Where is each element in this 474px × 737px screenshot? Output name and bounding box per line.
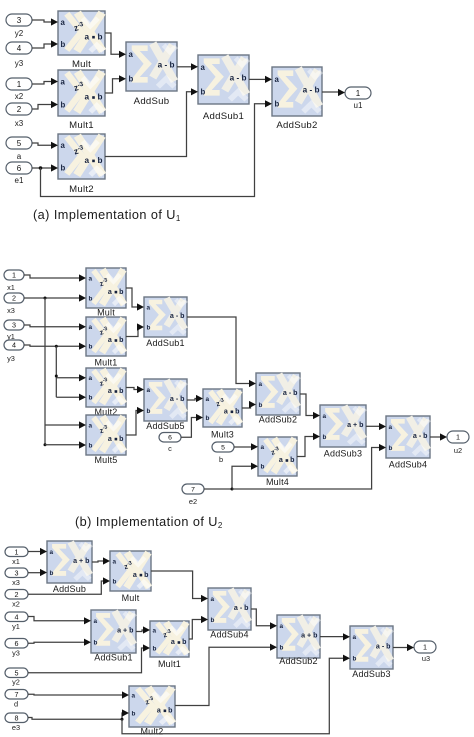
svg-text:a: a xyxy=(61,141,66,150)
wire Mult4 to AddSub3 b b xyxy=(297,437,313,457)
svg-text:a: a xyxy=(275,75,280,84)
adder AddSub4 c xyxy=(208,588,251,630)
svg-text:b: b xyxy=(119,336,124,344)
svg-text:AddSub5: AddSub5 xyxy=(146,421,184,431)
svg-text:a: a xyxy=(279,456,283,464)
input port 2 (x2) c xyxy=(5,590,28,600)
adder AddSub3 c xyxy=(350,626,393,669)
svg-text:b: b xyxy=(219,455,223,464)
wire AddSub3 to u3 xyxy=(393,647,407,649)
svg-text:a - b: a - b xyxy=(230,74,247,83)
svg-text:AddSub2: AddSub2 xyxy=(279,656,317,666)
svg-text:x1: x1 xyxy=(7,283,15,292)
wire x1 to AddSub a c xyxy=(28,551,40,553)
svg-text:a: a xyxy=(129,50,134,59)
svg-text:AddSub1: AddSub1 xyxy=(94,653,132,663)
svg-text:d: d xyxy=(14,700,18,709)
svg-text:1: 1 xyxy=(423,643,427,652)
adder AddSub2 b xyxy=(256,373,300,415)
input port 3 (y2) xyxy=(6,14,32,26)
wire d to Mult2 a xyxy=(28,693,122,696)
wire e1 to AddSub2 b xyxy=(41,104,266,197)
svg-text:4: 4 xyxy=(15,612,19,621)
svg-text:u1: u1 xyxy=(354,101,363,110)
svg-text:e3: e3 xyxy=(12,723,20,732)
adder AddSub1 xyxy=(198,55,249,104)
wire e2 to Mult4 b xyxy=(204,466,251,489)
svg-text:a: a xyxy=(89,375,93,382)
wire AddSub2 to AddSub3 a b xyxy=(300,394,313,416)
input port 7 (e2) xyxy=(182,484,204,494)
svg-text:b: b xyxy=(389,445,393,452)
svg-text:(a) Implementation of U1: (a) Implementation of U1 xyxy=(33,208,181,223)
svg-text:b: b xyxy=(147,324,151,331)
svg-text:a: a xyxy=(261,444,265,451)
svg-text:a - b: a - b xyxy=(234,604,249,612)
input port 1 (x2) xyxy=(6,78,32,90)
multiplier Mult2 b xyxy=(86,368,126,407)
svg-text:b: b xyxy=(94,640,98,647)
svg-text:a: a xyxy=(211,596,215,603)
svg-text:4: 4 xyxy=(17,44,22,53)
svg-text:a: a xyxy=(84,32,89,41)
svg-text:a: a xyxy=(113,558,117,565)
svg-text:a: a xyxy=(171,638,175,646)
svg-text:a: a xyxy=(61,77,66,86)
svg-text:8: 8 xyxy=(15,713,19,722)
wire e3 to AddSub3 b c xyxy=(122,658,343,734)
multiplier Mult b xyxy=(86,268,126,308)
wire e2 to AddSub4 b b xyxy=(232,448,379,490)
svg-text:b: b xyxy=(89,295,93,302)
svg-text:a: a xyxy=(206,396,210,403)
svg-text:y3: y3 xyxy=(15,59,24,68)
adder AddSub c xyxy=(47,541,92,583)
adder AddSub1 b xyxy=(144,297,187,337)
input port 6 (c) xyxy=(159,433,181,443)
svg-text:Mult: Mult xyxy=(97,308,115,318)
output port 1 (u1) xyxy=(345,87,371,99)
svg-text:a: a xyxy=(61,18,66,27)
wire to Mult2 b xyxy=(56,396,79,398)
svg-text:Mult: Mult xyxy=(122,593,140,603)
output port 1 (u2) xyxy=(447,431,469,443)
wire a to Mult2 a xyxy=(32,143,51,145)
svg-text:6: 6 xyxy=(17,164,22,173)
svg-text:a: a xyxy=(89,275,93,282)
svg-text:a - b: a - b xyxy=(158,61,175,70)
adder AddSub5 xyxy=(144,379,187,421)
svg-text:2: 2 xyxy=(17,105,22,114)
input port 5 (a) xyxy=(6,137,32,149)
svg-text:4: 4 xyxy=(12,341,16,350)
wire e1 to Mult2 b xyxy=(32,167,51,169)
multiplier Mult c xyxy=(110,551,151,591)
junction Mult5 b xyxy=(44,443,47,446)
svg-text:Mult1: Mult1 xyxy=(69,120,94,131)
wire c to Mult3 b xyxy=(181,418,196,438)
svg-text:b: b xyxy=(97,156,102,165)
svg-text:a: a xyxy=(147,304,151,311)
svg-text:b: b xyxy=(61,164,66,173)
svg-text:b: b xyxy=(211,617,215,624)
wire y3 to AddSub1 b c xyxy=(28,642,84,643)
svg-text:Mult4: Mult4 xyxy=(266,477,289,487)
multiplier Mult4 xyxy=(258,437,297,476)
wire AddSub4 to AddSub2 a xyxy=(251,609,270,626)
svg-text:7: 7 xyxy=(15,690,19,699)
svg-text:b: b xyxy=(89,442,93,449)
svg-text:b: b xyxy=(290,456,295,464)
svg-text:b: b xyxy=(201,88,206,97)
adder AddSub xyxy=(126,42,177,91)
svg-text:c: c xyxy=(168,444,172,453)
svg-text:y2: y2 xyxy=(12,678,20,687)
svg-text:b: b xyxy=(353,656,357,663)
wire AddSub to AddSub1 a xyxy=(177,66,191,68)
wire Mult3 to AddSub2 b b xyxy=(242,405,251,409)
input port 1 (x1) c xyxy=(5,547,28,557)
svg-text:a: a xyxy=(84,93,89,102)
wire x2 to Mult b c xyxy=(28,581,103,594)
svg-text:Mult1: Mult1 xyxy=(94,358,117,368)
wire AddSub1 to AddSub2 a b xyxy=(187,317,249,384)
wire branch to Mult2 a xyxy=(56,377,79,379)
multiplier Mult1 xyxy=(58,70,105,116)
svg-text:3: 3 xyxy=(15,568,19,577)
svg-text:a: a xyxy=(153,627,157,634)
svg-text:a - b: a - b xyxy=(170,312,185,320)
svg-text:AddSub3: AddSub3 xyxy=(324,449,362,459)
wire y1 to AddSub1 a c xyxy=(28,617,84,621)
svg-text:a: a xyxy=(280,623,284,630)
input port 4 (y1) c xyxy=(5,612,28,622)
input port 7 (d) c xyxy=(5,690,28,700)
svg-text:5: 5 xyxy=(17,139,22,148)
svg-text:b: b xyxy=(144,571,149,579)
input port 5 (b) xyxy=(212,442,234,452)
wire Mult to AddSub4 a xyxy=(151,571,201,599)
svg-text:x2: x2 xyxy=(12,600,20,609)
wire y2 to Mult1 b xyxy=(28,648,143,673)
svg-text:a - b: a - b xyxy=(303,86,320,95)
svg-text:x2: x2 xyxy=(15,92,24,101)
adder AddSub2 c xyxy=(277,615,320,658)
svg-text:a - b: a - b xyxy=(413,432,428,440)
svg-text:Mult3: Mult3 xyxy=(211,430,234,440)
svg-text:7: 7 xyxy=(191,486,195,493)
svg-text:b: b xyxy=(280,645,284,652)
svg-text:1: 1 xyxy=(356,89,361,98)
wire Mult2 to AddSub1 b xyxy=(105,92,191,157)
wire y3 down to Mult2 xyxy=(55,346,57,397)
svg-text:b: b xyxy=(97,32,102,41)
multiplier Mult1 b xyxy=(86,317,126,356)
svg-text:AddSub4: AddSub4 xyxy=(210,630,248,640)
svg-text:e2: e2 xyxy=(189,497,197,506)
wire x2 to Mult1 a xyxy=(32,82,51,85)
svg-text:AddSub1: AddSub1 xyxy=(203,111,244,122)
svg-text:a: a xyxy=(132,692,136,699)
input port 2 (x3) b xyxy=(4,293,24,303)
svg-text:b: b xyxy=(153,645,157,652)
wire AddSub4 to u2 xyxy=(430,436,440,438)
wire y2 to Mult a xyxy=(32,20,51,22)
adder AddSub3 b xyxy=(320,405,366,447)
wire e3 to Mult2 b xyxy=(28,713,123,719)
junction x3 xyxy=(44,297,47,300)
svg-text:b: b xyxy=(89,344,93,351)
svg-text:Mult: Mult xyxy=(72,59,91,70)
multiplier Mult xyxy=(58,11,105,55)
svg-text:2: 2 xyxy=(12,294,16,303)
svg-text:AddSub2: AddSub2 xyxy=(259,415,297,425)
svg-text:AddSub1: AddSub1 xyxy=(146,338,184,348)
input port 5 (y2) c xyxy=(5,668,28,678)
output port 1 (u3) xyxy=(414,641,436,653)
svg-text:b: b xyxy=(168,706,173,714)
svg-text:a: a xyxy=(157,706,161,714)
wire branch to Mult5 a xyxy=(45,424,79,426)
svg-text:a: a xyxy=(389,424,393,431)
svg-text:a: a xyxy=(89,324,93,331)
wire AddSub2 to u1 xyxy=(322,91,338,93)
svg-text:1: 1 xyxy=(12,271,16,280)
wire Mult2 to AddSub5 a xyxy=(126,388,137,390)
svg-text:b: b xyxy=(182,638,187,646)
junction e1 xyxy=(39,166,43,170)
svg-text:b: b xyxy=(61,100,66,109)
input port 1 (x1) b xyxy=(4,270,24,280)
multiplier Mult1 c xyxy=(150,621,189,657)
svg-text:x3: x3 xyxy=(7,306,15,315)
svg-text:y2: y2 xyxy=(15,29,24,38)
svg-text:a: a xyxy=(17,152,22,161)
svg-text:a: a xyxy=(201,63,206,72)
junction e3 xyxy=(121,718,124,721)
multiplier Mult3 xyxy=(203,389,242,427)
wire x3 to Mult b b xyxy=(24,297,79,299)
wire AddSub1 to AddSub2 a xyxy=(249,78,265,80)
adder AddSub4 b xyxy=(386,416,430,458)
svg-text:y3: y3 xyxy=(7,354,15,363)
svg-text:a: a xyxy=(353,634,357,641)
svg-text:AddSub: AddSub xyxy=(134,96,170,107)
wire AddSub to Mult a c xyxy=(92,561,103,562)
svg-text:Mult1: Mult1 xyxy=(158,659,181,669)
section (b): Implementation of U2 xyxy=(4,268,469,530)
adder AddSub2 xyxy=(272,67,322,116)
wire AddSub2 to AddSub3 a xyxy=(320,636,343,638)
wire Mult1 to AddSub b xyxy=(105,79,119,93)
svg-text:a: a xyxy=(224,408,228,416)
wire b to Mult4 a xyxy=(234,446,251,448)
input port 4 (y3) xyxy=(6,42,32,54)
svg-text:a: a xyxy=(108,435,112,443)
svg-text:b: b xyxy=(97,93,102,102)
input port 6 (y3) c xyxy=(5,639,28,649)
svg-text:b: b xyxy=(129,75,134,84)
svg-text:a + b: a + b xyxy=(117,626,134,634)
wire Mult1 to AddSub1 b b xyxy=(126,327,138,337)
wire y3 to Mult1 b b xyxy=(24,345,79,346)
svg-text:Mult2: Mult2 xyxy=(69,184,94,195)
multiplier Mult2 c xyxy=(129,686,175,727)
svg-text:x3: x3 xyxy=(12,578,20,587)
svg-text:5: 5 xyxy=(15,668,19,677)
svg-text:a: a xyxy=(259,381,263,388)
svg-text:a: a xyxy=(89,422,93,429)
svg-text:6: 6 xyxy=(168,435,172,442)
wire Mult1 to AddSub4 b xyxy=(189,620,201,640)
svg-text:x3: x3 xyxy=(15,119,24,128)
svg-text:1: 1 xyxy=(15,547,19,556)
junction Mult2 a xyxy=(55,375,58,378)
section (a): Implementation of U1 xyxy=(6,11,371,223)
svg-text:a + b: a + b xyxy=(301,631,318,639)
svg-text:x1: x1 xyxy=(12,557,20,566)
input port 2 (x3) xyxy=(6,103,32,115)
wire Mult5 to AddSub5 b xyxy=(126,411,137,436)
svg-text:a: a xyxy=(323,413,327,420)
svg-text:b: b xyxy=(119,288,124,296)
svg-text:a: a xyxy=(133,571,137,579)
svg-text:2: 2 xyxy=(15,590,19,599)
multiplier Mult5 xyxy=(86,415,126,455)
svg-text:3: 3 xyxy=(12,321,16,330)
svg-text:AddSub4: AddSub4 xyxy=(389,460,427,470)
svg-text:b: b xyxy=(113,578,117,585)
svg-text:a - b: a - b xyxy=(170,395,185,403)
wire x3 to Mult1 b xyxy=(32,105,51,110)
svg-text:a: a xyxy=(50,549,54,556)
svg-text:b: b xyxy=(147,408,151,415)
svg-text:b: b xyxy=(259,402,263,409)
svg-text:b: b xyxy=(119,435,124,443)
wire x1 to Mult a b xyxy=(24,275,79,278)
wire to Mult5 b xyxy=(45,444,79,446)
wire x3 down to Mult5 xyxy=(44,298,46,445)
svg-text:(b) Implementation of U2: (b) Implementation of U2 xyxy=(75,515,223,530)
input port 3 (x3) c xyxy=(5,568,28,578)
wire Mult to AddSub1 a b xyxy=(126,288,137,307)
wire Mult2 to AddSub2 b xyxy=(175,647,270,705)
wire y1 to Mult1 a b xyxy=(24,325,79,327)
adder AddSub1 c xyxy=(91,610,136,653)
wire x3 to AddSub b c xyxy=(28,572,40,574)
svg-text:AddSub2: AddSub2 xyxy=(276,120,317,131)
svg-text:y1: y1 xyxy=(12,622,20,631)
svg-text:1: 1 xyxy=(456,433,460,442)
input port 8 (e3) c xyxy=(5,713,28,723)
svg-text:a: a xyxy=(108,288,112,296)
svg-text:b: b xyxy=(261,464,265,471)
svg-text:b: b xyxy=(119,387,124,395)
svg-text:b: b xyxy=(275,100,280,109)
wire y3 to Mult b xyxy=(32,44,51,48)
svg-text:u2: u2 xyxy=(454,446,462,455)
svg-text:a - b: a - b xyxy=(283,389,298,397)
multiplier Mult2 xyxy=(58,134,105,179)
input port 6 (e1) xyxy=(6,162,32,174)
svg-text:e1: e1 xyxy=(15,176,24,185)
svg-text:AddSub: AddSub xyxy=(53,584,86,594)
svg-text:a: a xyxy=(108,387,112,395)
svg-text:b: b xyxy=(50,570,54,577)
input port 3 (y1) b xyxy=(4,320,24,330)
svg-text:b: b xyxy=(89,395,93,402)
svg-text:y3: y3 xyxy=(12,649,20,658)
svg-text:5: 5 xyxy=(221,444,225,451)
junction e2 xyxy=(231,488,234,491)
wire Mult to AddSub a xyxy=(105,33,119,54)
svg-text:1: 1 xyxy=(17,80,22,89)
svg-text:a: a xyxy=(147,387,151,394)
svg-text:u3: u3 xyxy=(422,654,430,663)
input port 4 (y3) b xyxy=(4,340,24,350)
svg-text:b: b xyxy=(235,408,240,416)
svg-text:a: a xyxy=(108,336,112,344)
section (c): Implementation of U3 xyxy=(5,541,436,737)
wire AddSub3 to AddSub4 a b xyxy=(366,425,379,427)
svg-text:Mult2: Mult2 xyxy=(140,727,163,737)
svg-text:b: b xyxy=(132,710,136,717)
wire AddSub5 to Mult3 a xyxy=(187,399,196,401)
svg-text:a: a xyxy=(84,156,89,165)
svg-text:b: b xyxy=(206,415,210,422)
svg-text:Mult5: Mult5 xyxy=(94,455,117,465)
svg-text:a - b: a - b xyxy=(376,642,391,650)
svg-text:b: b xyxy=(61,40,66,49)
svg-text:a: a xyxy=(94,618,98,625)
junction y3 xyxy=(55,345,58,348)
svg-text:a + b: a + b xyxy=(73,557,90,565)
wire AddSub1 to Mult1 a xyxy=(136,630,143,632)
svg-text:3: 3 xyxy=(17,16,22,25)
svg-text:a + b: a + b xyxy=(347,421,364,429)
svg-text:b: b xyxy=(323,434,327,441)
svg-text:6: 6 xyxy=(15,639,19,648)
svg-text:AddSub3: AddSub3 xyxy=(352,669,390,679)
